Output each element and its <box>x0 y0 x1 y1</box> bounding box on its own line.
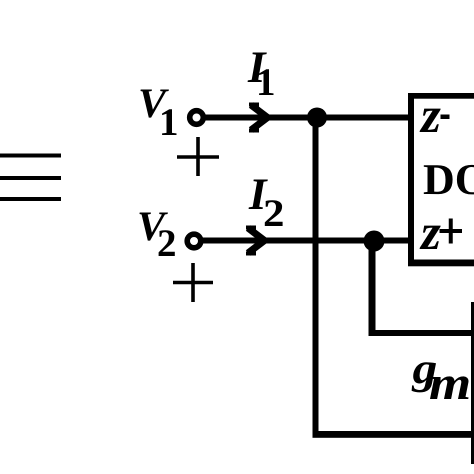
label I1 <box>248 53 274 96</box>
terminal circle V2 <box>187 234 201 248</box>
vertical wire from node B down <box>369 241 376 336</box>
pin label z- <box>420 109 450 132</box>
wire node B to gm block <box>369 330 474 336</box>
plus sign under V1 <box>177 137 219 176</box>
vertical wire from node A down <box>313 117 319 438</box>
current arrow I1 <box>251 105 268 130</box>
label I2 <box>249 180 283 227</box>
box DO unit: top edge <box>408 93 474 99</box>
pin label z+ <box>420 219 462 250</box>
current arrow I2 <box>248 228 265 253</box>
junction node B <box>364 231 385 252</box>
label V2 <box>140 213 175 257</box>
label gm <box>412 362 469 399</box>
label V1 <box>141 90 177 136</box>
bottom wire <box>313 431 474 438</box>
wire V2 to box pin z+ <box>201 238 409 244</box>
junction node A <box>307 108 327 128</box>
gm block left edge (cut off) <box>471 302 474 464</box>
box DO unit: bottom edge <box>408 260 474 267</box>
equivalence symbol <box>0 154 61 202</box>
box DO unit: left edge <box>408 93 414 266</box>
label DO (cut off at right) <box>424 165 474 195</box>
wire V1 to box pin z- <box>203 115 409 121</box>
plus sign under V2 <box>173 263 213 302</box>
terminal circle V1 <box>190 111 204 125</box>
